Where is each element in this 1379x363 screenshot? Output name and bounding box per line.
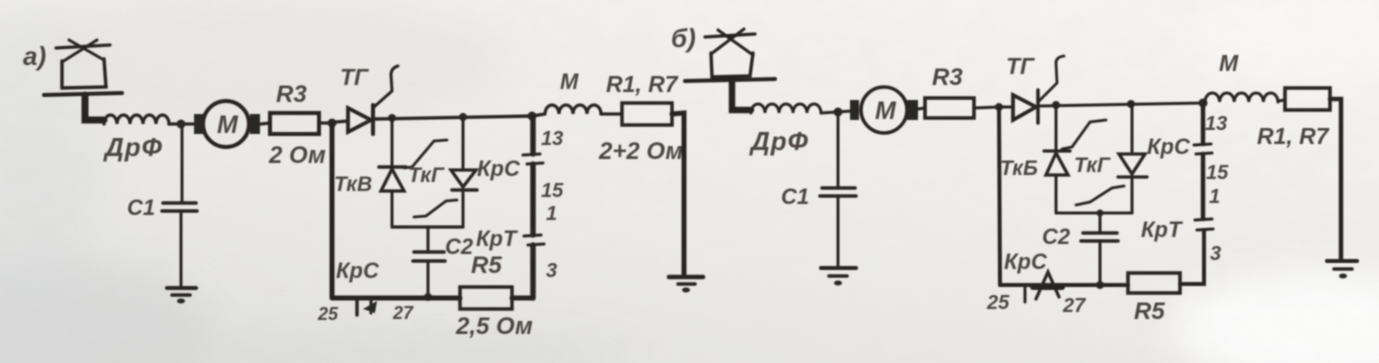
wire coil to R1,R7 (b) (1278, 100, 1285, 101)
thyristor ТкГ (b) gate (1076, 186, 1124, 205)
thyristor ТкБ (b) gate (1062, 120, 1106, 149)
inductor М smoothing coil (a) (532, 105, 601, 116)
top wire (b) (1040, 103, 1203, 106)
contact КрТ 1-3 (a) (524, 235, 541, 236)
wire ТГ to node D (top wire a) (374, 116, 533, 119)
wire ТкГ to loop bottom (462, 190, 465, 227)
node B' (b) (995, 103, 1003, 111)
thyristor ТГ (a) anode wire (336, 121, 348, 122)
inductor ДрФ (b) (751, 104, 821, 113)
wire R1,R7 to ground (b) (1330, 99, 1341, 260)
node A' (b) (834, 108, 843, 117)
capacitor C2 (b) (1081, 233, 1118, 241)
node loop bottom (b) (1097, 210, 1104, 217)
wire motor to R3 (261, 123, 270, 124)
pantograph (circuit a) body (62, 59, 106, 88)
contact КрС 13-15 (b) (1194, 144, 1211, 145)
node A (a) (177, 120, 186, 129)
wire down to ТкГ (a) (462, 117, 465, 169)
chain wire between contacts (a) (530, 164, 536, 235)
wire motor to R3 (b) (918, 108, 925, 109)
contact chain (a): upper wire (530, 116, 536, 154)
wire down to ТкГ (b) (1131, 104, 1134, 153)
left vertical wire (b) (999, 107, 1000, 285)
resistor R3 (a) (270, 113, 319, 134)
thyristor ТГ (b) anode wire (1003, 106, 1013, 109)
contact 25-27 КрС (b) (1024, 285, 1027, 302)
inductor ДрФ (circuit a) (104, 115, 169, 124)
resistor R5 (b) (1128, 273, 1180, 293)
contact КрС 13-15 (a) (523, 154, 540, 155)
ground (a, under C1) (167, 286, 196, 290)
thyristor ТкГ (a) (451, 170, 476, 187)
node D (a) (528, 112, 537, 121)
capacitor C2 (a) (413, 252, 445, 261)
wire ТкГ to loop bottom (b) (1131, 178, 1134, 213)
loop bottom wire (b) (1056, 212, 1132, 215)
ground (b right) (1327, 259, 1357, 263)
ground (a right) (669, 275, 703, 280)
thyristor ТГ (a) gate (374, 66, 398, 107)
capacitor C1 (a) (162, 203, 197, 211)
wire R5 to chain (b) (1180, 230, 1204, 284)
wire coil to node (b) (821, 111, 852, 113)
node at ТкВ branch (a) (388, 114, 396, 122)
left vertical wire (a) (330, 123, 335, 298)
node C2 bottom (b) (1096, 281, 1104, 289)
node top right (b) (1199, 99, 1208, 108)
pantograph (circuit b) contact wire (705, 34, 755, 37)
wire R5 to chain (a) (512, 296, 533, 301)
thyristor ТкВ (a) gate (404, 140, 447, 168)
capacitor C1 (b) (820, 188, 856, 196)
node at ТкГ branch (a) (459, 113, 467, 121)
thyristor ТГ (a) (348, 108, 371, 132)
wire down to ТкВ (391, 118, 394, 166)
loop bottom wire (a) (392, 225, 463, 228)
resistor R1,R7 (b) (1285, 88, 1330, 110)
wire C1 to ground (b) (837, 198, 840, 267)
wire from pantograph to ДрФ (b) (732, 81, 751, 110)
thyristor ТГ (b) (1013, 95, 1036, 120)
wire loop to C2 (a) (427, 227, 430, 250)
wire R3 to node B (319, 121, 332, 124)
wire from pantograph to ДрФ (85, 95, 104, 120)
motor M (circuit a) (203, 101, 249, 147)
node C2 bottom (a) (424, 293, 432, 301)
motor M (b) (861, 87, 907, 133)
thyristor ТкБ (b) (1044, 149, 1070, 152)
resistor R1,R7 (a) (622, 103, 672, 125)
chain wire to bottom (a) (530, 245, 536, 298)
wire ТкВ to loop bottom (391, 191, 394, 227)
pantograph (circuit b) body (711, 53, 753, 77)
thyristor ТкВ (a) (379, 165, 406, 169)
wire coil to node A (169, 122, 196, 125)
contact 25-27 КрС (a) (355, 298, 359, 315)
thyristor ТкГ (b) (1119, 154, 1145, 174)
resistor R5 (a) (460, 287, 512, 309)
bottom wire (b) (1000, 283, 1128, 287)
wire down to ТкБ (b) (1055, 105, 1058, 150)
pantograph (circuit b) base (685, 79, 775, 81)
wire ТкБ to loop bottom (b) (1055, 175, 1058, 213)
contact КрТ 1-3 (b) (1195, 219, 1212, 220)
wire R1,R7 to ground (a) (672, 113, 684, 276)
resistor R3 (b) (925, 98, 974, 118)
wire C2 to bottom wire (a) (427, 263, 430, 298)
node B (a) (328, 119, 337, 128)
pantograph (circuit a) crossed arms (62, 40, 104, 62)
chain middle wire (b) (1201, 154, 1206, 219)
contact chain (b): upper wire (1201, 103, 1206, 144)
pantograph (circuit a) contact wire (56, 45, 110, 48)
wire C2 to bottom wire (b) (1099, 243, 1102, 285)
node at ТкГ branch (b) (1127, 100, 1135, 108)
wire coil to R1,R7 (a) (601, 112, 622, 115)
thyristor ТкГ (a) gate (414, 200, 457, 217)
thyristor ТГ (b) gate (1039, 56, 1064, 101)
wire C1 to ground (180, 213, 183, 288)
wire node A down to C1 (181, 124, 184, 201)
bottom wire (a) (332, 296, 460, 301)
wire loop to C2 (b) (1099, 213, 1102, 231)
pantograph (circuit a) base (44, 93, 122, 95)
wire node to C1 (b) (837, 112, 840, 186)
inductor М smoothing coil (b) (1205, 93, 1278, 102)
ground (b left) (821, 266, 856, 270)
pantograph (circuit b) crossed arms (711, 29, 753, 55)
node at ТкБ branch (b) (1052, 101, 1060, 109)
wire R3 to node B' (b) (974, 107, 999, 108)
